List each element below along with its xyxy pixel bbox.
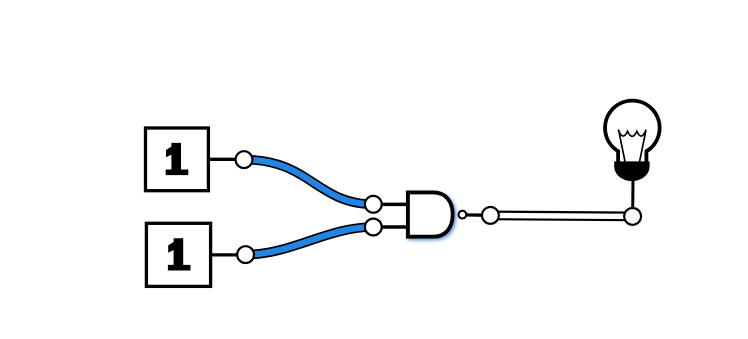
digit 1 (switch B) [168, 238, 191, 270]
NAND gate U1 (with blue selection glow) [408, 192, 453, 236]
light bulb L1: glass [605, 101, 660, 164]
bulb base [614, 161, 649, 181]
NAND output lead [467, 213, 484, 217]
lead from switch A to its port [208, 158, 244, 161]
wire W3 (NAND output to bulb, inactive white) [490, 215, 632, 216]
lead from switch B to its port [211, 253, 246, 256]
wire W2 (input B to NAND bottom input, active blue) [246, 227, 374, 255]
bulb stem [631, 178, 634, 210]
NAND input port bottom [365, 219, 382, 236]
NAND output port [482, 207, 499, 224]
NAND input stub bottom [374, 225, 407, 229]
constant switch B box [146, 223, 210, 286]
port on switch B [237, 246, 254, 263]
bulb input port [624, 208, 641, 225]
digit 1 (switch A) [166, 143, 189, 175]
NAND input stub top [374, 203, 407, 207]
wire W1 (input A to NAND top input, active blue) [244, 160, 373, 205]
NAND output bubble [459, 211, 467, 219]
bulb filament [618, 130, 646, 162]
NAND input port top [365, 196, 382, 213]
port on switch A [236, 151, 253, 168]
constant switch A box [146, 128, 209, 191]
NAND gate body [408, 192, 453, 236]
